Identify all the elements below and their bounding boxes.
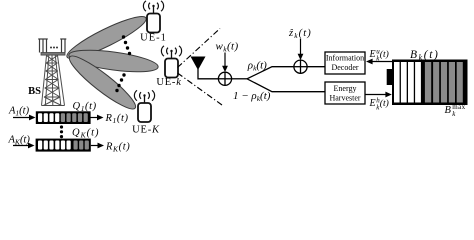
battery body: [392, 60, 468, 106]
information decoder box: [325, 52, 365, 74]
ellipsis dots between beam k and beam K: [115, 73, 125, 92]
UE-k phone icon: [161, 46, 181, 78]
label E^u_k(t): [369, 48, 389, 63]
splitter lower branch: [247, 79, 325, 92]
svg-text:Q1(t): Q1(t): [73, 101, 97, 113]
noise arrow z_k(t): [300, 39, 302, 57]
svg-text:B: B: [445, 105, 452, 116]
ellipsis dots between beam 1 and beam k: [122, 35, 131, 55]
beam lobe to UE-k: [68, 46, 160, 76]
departure arrow queue K: [91, 145, 100, 147]
svg-text:A1(t): A1(t): [8, 106, 30, 118]
svg-text:E: E: [369, 98, 376, 109]
departure arrow queue 1: [91, 117, 99, 119]
wire to information decoder: [307, 66, 325, 68]
svg-text:E: E: [369, 49, 376, 60]
svg-text:R1(t): R1(t): [105, 113, 129, 125]
UE-1 phone icon: [143, 1, 163, 33]
svg-text:1 − ρk(t): 1 − ρk(t): [233, 90, 271, 103]
zoom dash-dot line upper: [178, 29, 221, 68]
beam lobe to UE-K: [65, 50, 141, 115]
queue QK box: [36, 139, 91, 152]
receiver antenna triangle: [191, 57, 206, 71]
svg-text:BS: BS: [28, 86, 41, 97]
harvested energy arrow (harvester to battery): [365, 94, 387, 96]
svg-text:(t): (t): [380, 49, 389, 60]
label Bk^max: [445, 103, 466, 118]
vertical ellipsis between queues: [60, 125, 63, 138]
svg-text:ρk(t): ρk(t): [247, 59, 267, 72]
svg-text:RK(t): RK(t): [105, 142, 130, 154]
arrival arrow queue K: [13, 145, 30, 147]
adder circle 1: [218, 72, 231, 85]
label E^h_k(t): [369, 97, 389, 112]
energy harvester box: [325, 82, 365, 104]
svg-text:Bk(t): Bk(t): [410, 49, 439, 62]
svg-text:(t): (t): [380, 98, 389, 109]
tower platform: [41, 53, 65, 56]
adder circle 2: [294, 60, 307, 73]
svg-text:UE-k: UE-k: [156, 77, 181, 88]
svg-text:Harvester: Harvester: [329, 93, 360, 102]
BS lattice tower: [42, 56, 65, 106]
svg-text:QK(t): QK(t): [72, 128, 100, 140]
svg-text:Decoder: Decoder: [331, 63, 358, 72]
antenna array on BS tower: [38, 39, 66, 53]
battery terminal: [387, 69, 393, 85]
svg-text:ẑk(t): ẑk(t): [288, 28, 312, 40]
svg-text:Energy: Energy: [334, 84, 357, 93]
svg-text:Information: Information: [326, 54, 364, 63]
energy use arrow (battery to decoder): [371, 61, 393, 63]
zoom dash-dot line lower: [178, 73, 223, 105]
antenna array ellipsis dots: [50, 47, 58, 49]
queue Q1 box: [36, 111, 91, 124]
beam lobe to UE-1: [63, 10, 149, 64]
svg-text:UE-K: UE-K: [132, 125, 160, 136]
wire to splitter: [232, 78, 247, 80]
splitter upper branch: [247, 67, 294, 79]
noise arrow wk(t): [224, 53, 226, 69]
arrival arrow queue 1: [13, 117, 31, 119]
svg-text:wk(t): wk(t): [216, 41, 239, 54]
UE-K phone icon: [134, 90, 154, 122]
antenna stem wire: [198, 69, 218, 79]
svg-text:UE-1: UE-1: [140, 33, 167, 44]
